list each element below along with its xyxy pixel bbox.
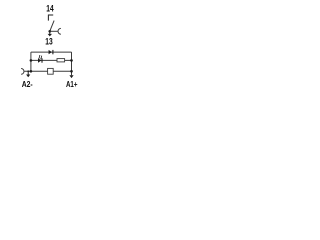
- relay coil K1: [48, 68, 54, 74]
- node: right rail / LED rung junction: [70, 59, 73, 62]
- resistor R1: [57, 59, 65, 62]
- socket (plug-in base connection) at contact circuit: [58, 28, 61, 34]
- svg-text:A2-: A2-: [22, 80, 33, 89]
- wire: right rail: [71, 52, 73, 75]
- diode D1 freewheel, cathode to A1+: [49, 50, 53, 54]
- wire: middle rung (LED branch): [31, 59, 72, 61]
- svg-text:13: 13: [45, 36, 52, 46]
- LED indicator: [38, 55, 42, 63]
- svg-text:14: 14: [46, 3, 53, 13]
- wire: stub from node to plug socket: [50, 30, 58, 32]
- node: junction dot at contact terminal 13: [48, 30, 51, 33]
- wire: top rung (diode branch): [31, 51, 72, 53]
- node: A2- arrow tee on bottom rail: [27, 70, 29, 72]
- terminal arrow A2-: [26, 71, 30, 77]
- socket (plug-in base connection) at A2-: [21, 69, 24, 75]
- wire: left rail: [30, 52, 32, 71]
- node: left rail / LED rung junction: [30, 59, 33, 62]
- contact 13-14 movable blade: [50, 21, 54, 32]
- node: right rail / bottom rail junction: [70, 70, 73, 73]
- terminal arrow A1+: [69, 75, 73, 78]
- contact 13-14 fixed terminal hook: [48, 15, 53, 21]
- terminal arrow 13: [48, 31, 52, 36]
- node: left rail / bottom rail junction: [30, 70, 33, 73]
- wire: bottom rail (coil branch): [25, 70, 72, 72]
- svg-text:A1+: A1+: [66, 80, 78, 89]
